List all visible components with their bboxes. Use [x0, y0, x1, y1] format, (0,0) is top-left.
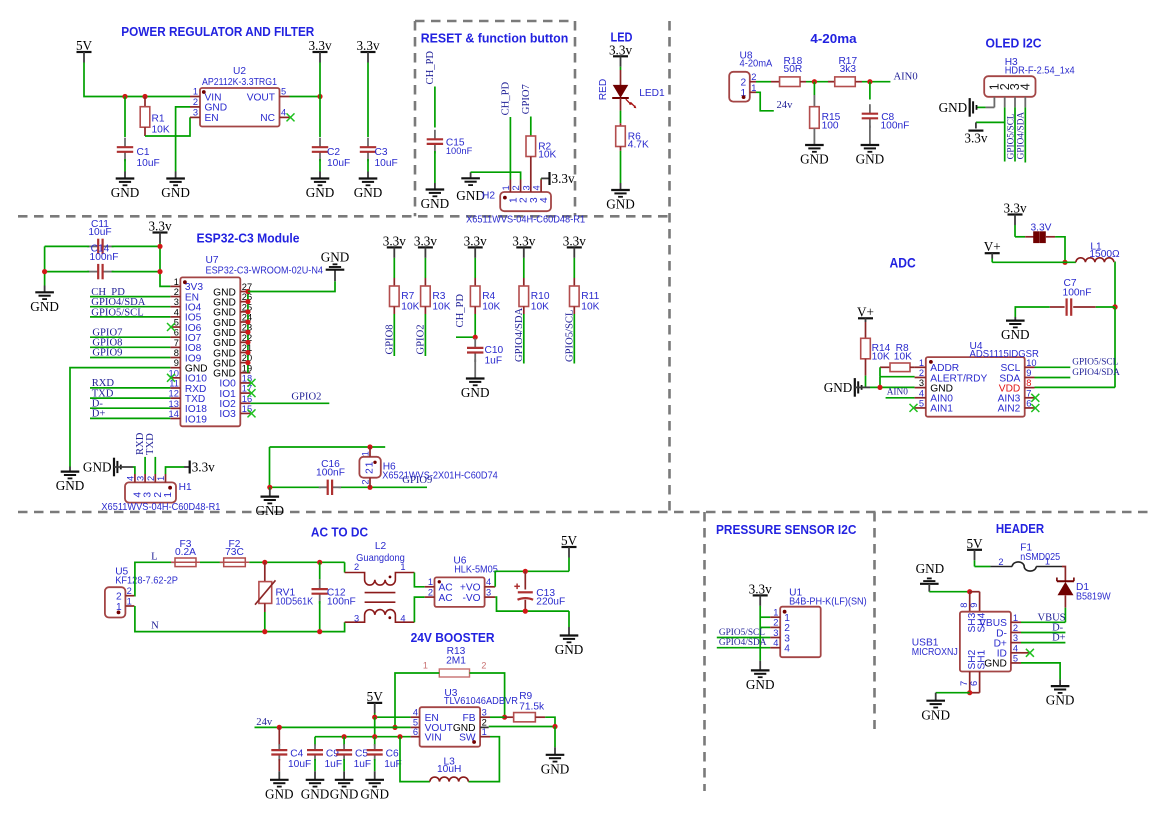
varistor RV1: [255, 562, 313, 631]
junction R13 at VOUT row 24v rail: [392, 725, 397, 730]
junction at C2: [317, 94, 322, 99]
L2 secondary phase dot: [388, 616, 391, 619]
svg-text:R11: R11: [581, 291, 599, 302]
junction on GND row: [877, 385, 882, 390]
U6 pin 1 dot: [438, 580, 441, 583]
inductor L1: [1076, 242, 1120, 263]
svg-text:2: 2: [127, 586, 132, 596]
no-connect X on U2 pin 4: [287, 113, 295, 121]
junction dots on GND bus: [245, 289, 250, 365]
svg-text:3: 3: [354, 613, 359, 623]
U2 pin 1 VIN: [190, 87, 221, 104]
H3 pin 4 stub and wire: [1024, 97, 1026, 163]
U7 pin 21 GND: [213, 343, 252, 359]
ground below C2: [306, 179, 335, 201]
svg-text:HLK-5M05: HLK-5M05: [454, 565, 498, 576]
svg-text:GPIO2: GPIO2: [415, 324, 426, 354]
USB1 pin 4 ID: [997, 643, 1021, 659]
U7 pin 14 IO19: [169, 409, 208, 425]
svg-text:V+: V+: [984, 239, 1001, 254]
svg-text:4: 4: [400, 613, 405, 623]
svg-text:4: 4: [1018, 83, 1032, 90]
U2 pin 1 dot: [202, 90, 206, 94]
L2 primary phase dot: [389, 576, 392, 579]
svg-text:5: 5: [1013, 653, 1018, 663]
svg-text:C5: C5: [355, 749, 368, 760]
net label AIN0: [894, 71, 918, 82]
wire bottom rail C16: [270, 486, 428, 488]
svg-text:2: 2: [751, 72, 756, 82]
H2 pin numbers: [501, 185, 542, 190]
svg-text:2M1: 2M1: [446, 655, 466, 666]
U4 pin 1 dot: [929, 360, 933, 364]
H1 footprint label: [101, 502, 220, 513]
svg-text:C6: C6: [386, 749, 399, 760]
power symbol 5V at AC-DC output: [561, 533, 578, 557]
H2 footprint label: [466, 215, 585, 226]
wire 3.3v down to U7 pin1: [160, 243, 170, 286]
svg-text:10K: 10K: [482, 302, 500, 313]
svg-text:V+: V+: [857, 304, 874, 319]
wire USB1 D+: [1021, 642, 1065, 644]
junction at C10: [473, 335, 478, 340]
wire TXD to H1 pin 2: [154, 457, 156, 474]
wire GND bus to top-right ground: [248, 270, 335, 292]
wire N line: [135, 606, 345, 632]
svg-text:1: 1: [193, 87, 198, 97]
wire L line: [134, 562, 175, 595]
svg-text:-VO: -VO: [462, 593, 480, 604]
svg-text:2: 2: [354, 562, 359, 572]
wire 3.3v to ferrite bead: [1015, 225, 1034, 237]
connector U5 body: [105, 566, 178, 617]
svg-text:AIN0: AIN0: [887, 387, 909, 397]
svg-text:GPIO5/SCL: GPIO5/SCL: [1006, 113, 1016, 159]
U3 pin 1 dot: [472, 740, 476, 744]
wire AIN0 to U4 pin 4: [886, 397, 915, 399]
ground below USB1 GND pin: [1046, 686, 1075, 708]
H1 pin 1 dot: [168, 486, 172, 490]
U7 pin 24 GND: [213, 312, 252, 328]
svg-text:GND: GND: [265, 786, 294, 801]
wire top rail H6: [270, 447, 386, 487]
svg-text:2: 2: [919, 368, 924, 378]
svg-text:13: 13: [169, 399, 179, 409]
svg-text:IO3: IO3: [219, 409, 236, 420]
ground below AC-DC output: [555, 636, 584, 658]
global label GPIO9 wire: [90, 348, 170, 359]
capacitor C4: [271, 727, 311, 779]
U7 pin 7 IO8: [170, 338, 201, 354]
power symbol 3.3v to H3: [964, 122, 1004, 145]
svg-text:2: 2: [146, 476, 156, 481]
svg-text:4.7K: 4.7K: [628, 139, 649, 150]
svg-text:R3: R3: [432, 291, 445, 302]
U2 pin 5 VOUT: [247, 87, 290, 104]
wire R18 to R17: [806, 81, 835, 83]
wire EN row: [375, 716, 411, 718]
no-connect X on U7 pin 10: [167, 374, 175, 382]
svg-text:IO19: IO19: [185, 414, 207, 425]
svg-text:10uF: 10uF: [88, 227, 111, 238]
global label GPIO5/SCL: [90, 307, 170, 318]
power symbol 3.3v above C2: [308, 38, 331, 62]
U7 pin 26 GND: [213, 292, 252, 308]
U4 pin 3 GND: [915, 378, 953, 394]
USB1 pin 5 GND: [984, 653, 1021, 669]
junction C4 at 24v rail: [277, 725, 282, 730]
ground below C4: [265, 780, 294, 802]
H3 pin numbers inside: [988, 83, 1033, 90]
svg-text:1500Ω: 1500Ω: [1089, 249, 1120, 260]
wire L2 pin1 to U6: [414, 573, 424, 587]
wire C7 to ground: [1015, 307, 1115, 321]
U5 pin 2: [116, 586, 134, 603]
ground below U1: [746, 670, 775, 692]
svg-text:GND: GND: [306, 185, 335, 200]
svg-text:PRESSURE SENSOR I2C: PRESSURE SENSOR I2C: [716, 523, 856, 537]
svg-text:1uF: 1uF: [325, 759, 343, 770]
wire 3.3v to LED: [620, 67, 622, 86]
wire and vertical global label GPIO2 below R3: [415, 307, 426, 357]
wire bottom rail C14: [45, 271, 160, 273]
svg-text:X6511WVS-04H-C60D48-R1: X6511WVS-04H-C60D48-R1: [466, 215, 585, 226]
ground below shield: [921, 701, 950, 723]
svg-text:GND: GND: [856, 152, 885, 167]
resistor R7: [390, 258, 420, 313]
svg-text:10: 10: [1026, 358, 1036, 368]
H2 pin stubs: [510, 180, 541, 193]
svg-text:4: 4: [539, 197, 550, 203]
wire U3 GND to junction: [489, 726, 555, 728]
svg-text:6: 6: [1026, 398, 1031, 408]
svg-text:10K: 10K: [581, 302, 599, 313]
svg-text:GND: GND: [321, 250, 350, 265]
svg-text:3k3: 3k3: [840, 64, 857, 75]
wire R8 to ALERT and GND row: [880, 367, 915, 387]
U4 pin 9 SDA: [999, 368, 1034, 384]
svg-text:3: 3: [486, 587, 491, 597]
ground below R15: [800, 145, 829, 167]
svg-text:R1: R1: [152, 114, 165, 125]
svg-text:2: 2: [998, 557, 1003, 567]
ground below C6: [360, 780, 389, 802]
transformer L2 secondary winding: [345, 610, 415, 624]
capacitor C3: [360, 138, 398, 179]
capacitor C5: [336, 737, 371, 780]
wire H1 pin1 to 3.3v: [166, 467, 185, 474]
wire VIN row: [315, 736, 411, 738]
wire and vertical global label GPIO5/SCL below R11: [564, 307, 575, 364]
resistor R17: [828, 56, 862, 86]
net label 24v: [256, 717, 273, 728]
svg-text:GPIO7: GPIO7: [521, 84, 532, 114]
junction C13 top: [523, 569, 528, 574]
svg-text:U2: U2: [233, 66, 246, 77]
svg-text:GND: GND: [921, 707, 950, 722]
ground flag top-left of USB1: [916, 561, 945, 592]
global label D- wire: [90, 399, 170, 410]
svg-text:3: 3: [174, 297, 179, 307]
svg-text:1: 1: [751, 83, 756, 93]
U7 pin 8 IO9: [170, 348, 201, 364]
USB1 shield pin numbers 8 9: [959, 603, 979, 608]
USB1 top shield stubs: [970, 592, 980, 612]
svg-text:8: 8: [174, 348, 179, 358]
svg-text:5: 5: [281, 87, 286, 97]
capacitor C11: [87, 219, 113, 254]
svg-text:GPIO9: GPIO9: [402, 475, 432, 486]
svg-text:L2: L2: [375, 541, 387, 552]
svg-text:GND: GND: [205, 103, 228, 114]
svg-text:1: 1: [919, 358, 924, 368]
transformer L2 labels: [356, 541, 405, 564]
svg-text:B5819W: B5819W: [1076, 592, 1111, 603]
section title AC TO DC: [311, 526, 368, 540]
capacitor C8: [862, 82, 910, 145]
power symbol 3.3v above LED: [609, 43, 632, 67]
wire R6 to ground: [620, 151, 622, 190]
wire USB1 D-: [1021, 632, 1065, 634]
junction C7: [1112, 304, 1117, 309]
svg-text:3: 3: [521, 185, 531, 190]
svg-text:3.3v: 3.3v: [609, 43, 632, 58]
svg-text:100: 100: [822, 121, 839, 132]
svg-text:4: 4: [773, 638, 778, 648]
svg-text:EN: EN: [205, 113, 219, 124]
power symbol 5V header: [966, 536, 983, 560]
no-connect X on U4 pins 7 and 6: [1031, 394, 1039, 412]
svg-text:GND: GND: [606, 197, 635, 212]
label RED vertical: [598, 79, 609, 101]
svg-text:3.3v: 3.3v: [749, 582, 772, 597]
svg-text:3.3v: 3.3v: [1003, 201, 1026, 216]
svg-text:C2: C2: [327, 147, 340, 158]
op-amp U2 AP2112K regulator body: [200, 66, 280, 127]
U1 pin 1 dot: [783, 610, 787, 614]
junction H6 pin1: [367, 444, 372, 449]
ground below C9: [301, 780, 330, 802]
svg-text:2: 2: [428, 587, 433, 597]
power symbol 3.3v above R3: [414, 234, 437, 258]
svg-text:3: 3: [136, 476, 146, 481]
svg-text:ESP32-C3 Module: ESP32-C3 Module: [197, 232, 300, 246]
svg-text:6: 6: [969, 681, 979, 686]
H6 pin names inside: [364, 461, 375, 474]
svg-text:GND: GND: [916, 561, 945, 576]
F1 pin 1 number: [1045, 557, 1050, 567]
svg-text:CH_PD: CH_PD: [425, 51, 436, 85]
svg-text:4: 4: [486, 577, 491, 587]
svg-text:GND: GND: [354, 185, 383, 200]
svg-text:GND: GND: [360, 786, 389, 801]
svg-text:1: 1: [428, 577, 433, 587]
IC U3 TLV61046 body: [420, 688, 518, 747]
H3 pin 2 stub and wire: [1004, 97, 1006, 162]
svg-text:3.3v: 3.3v: [414, 234, 437, 249]
USB1 shield names SH3 SH4: [967, 612, 988, 632]
power symbol 5V: [76, 38, 93, 62]
svg-text:2: 2: [361, 479, 371, 484]
junction GND row: [552, 724, 557, 729]
wire SW to L3: [468, 737, 499, 782]
wire top rail C11: [45, 245, 160, 247]
net label L: [151, 552, 157, 563]
svg-text:R10: R10: [531, 291, 550, 302]
ground below C1: [111, 179, 140, 201]
svg-text:10uH: 10uH: [437, 764, 461, 775]
ground below C15: [421, 190, 450, 212]
USB1 shield pin numbers 7 6: [959, 681, 979, 686]
svg-text:5V: 5V: [76, 38, 93, 53]
svg-text:3.3v: 3.3v: [464, 234, 487, 249]
capacitor C9: [307, 737, 342, 780]
power symbol 3.3v above R7: [383, 234, 406, 258]
svg-text:1: 1: [423, 660, 428, 670]
U7 pin 1 dot: [183, 280, 187, 284]
U1 pin 4: [770, 638, 790, 655]
U7 pin 19 GND: [213, 363, 252, 379]
junction left rail: [42, 269, 47, 274]
U7 pin 20 GND: [213, 353, 252, 369]
power symbol 3.3v above R4: [464, 234, 487, 258]
capacitor C6: [367, 737, 402, 780]
svg-text:GND: GND: [456, 188, 485, 203]
capacitor C1: [117, 97, 160, 179]
wire LED to R6: [620, 98, 622, 126]
resistor R6: [616, 126, 649, 151]
capacitor C14: [87, 244, 118, 280]
svg-text:1: 1: [127, 596, 132, 606]
svg-text:0.2A: 0.2A: [175, 547, 196, 558]
svg-text:2: 2: [481, 660, 486, 670]
resistor R4: [470, 258, 500, 313]
svg-text:3.3v: 3.3v: [552, 171, 575, 186]
svg-text:ESP32-C3-WROOM-02U-N4: ESP32-C3-WROOM-02U-N4: [206, 266, 324, 277]
H6 pin 1 dot: [373, 461, 376, 464]
H1 pin numbers: [125, 476, 166, 481]
svg-text:100nF: 100nF: [316, 468, 345, 479]
connector H1 body: [125, 482, 192, 503]
wire C7 junction down to VDD: [1114, 307, 1116, 387]
section title ESP32-C3 Module: [197, 232, 300, 246]
IC U6 HLK-5M05 body: [435, 556, 499, 607]
svg-text:POWER REGULATOR AND FILTER: POWER REGULATOR AND FILTER: [121, 25, 314, 39]
svg-text:H2: H2: [482, 191, 495, 202]
svg-text:3: 3: [193, 107, 198, 117]
svg-text:1: 1: [773, 608, 778, 618]
net label GPIO9 at C16 rail: [402, 475, 432, 486]
H1 pin names inside: [132, 492, 174, 498]
svg-text:4-20mA: 4-20mA: [740, 59, 773, 70]
svg-text:1: 1: [174, 277, 179, 287]
USB1 bottom shield stubs: [970, 672, 980, 693]
vertical global label TXD above H1: [145, 433, 156, 455]
svg-text:GND: GND: [421, 196, 450, 211]
polarized capacitor C13: [514, 571, 565, 611]
svg-text:6: 6: [174, 328, 179, 338]
ground flag near H2: [456, 172, 485, 203]
wire V+ to L1: [992, 261, 1076, 263]
U7 pin 16 IO2: [219, 394, 252, 410]
svg-text:L: L: [151, 552, 157, 563]
ground right of U3: [541, 755, 570, 777]
fuse F2: [220, 539, 250, 567]
svg-text:14: 14: [169, 409, 179, 419]
svg-text:9: 9: [1026, 368, 1031, 378]
U7 pin 17 IO1: [219, 384, 252, 400]
global labels and wires left of U7: CH_PD: [90, 287, 170, 298]
junction shield top: [967, 589, 972, 594]
wire 3.3v down to C2: [319, 63, 321, 138]
junction bottom rail right: [157, 269, 162, 274]
net label GPIO2 right of U7: [291, 392, 321, 403]
power symbol 3.3v above ferrite bead: [1003, 201, 1026, 225]
IC U7 ESP32-C3 body: [180, 255, 323, 426]
svg-text:KF128-7.62-2P: KF128-7.62-2P: [115, 576, 178, 587]
junction at C1: [122, 94, 127, 99]
wire F1 to D1: [1062, 567, 1065, 581]
svg-text:10K: 10K: [432, 302, 450, 313]
ground below C16 rail: [256, 487, 285, 518]
section title RESET and function button: [421, 32, 569, 46]
svg-text:10K: 10K: [152, 125, 170, 136]
ground below U2 GND: [161, 179, 190, 201]
svg-text:GND: GND: [746, 677, 775, 692]
svg-text:GND: GND: [939, 100, 968, 115]
global label GPIO4/SDA vertical: [1017, 112, 1027, 160]
svg-text:OLED I2C: OLED I2C: [986, 37, 1042, 51]
net label D-: [1052, 622, 1064, 633]
svg-text:GND: GND: [111, 185, 140, 200]
wire R13 right leg: [470, 673, 505, 717]
power flag V+ above R14: [857, 304, 874, 322]
svg-text:GND: GND: [330, 786, 359, 801]
svg-text:220uF: 220uF: [536, 597, 565, 608]
net label N: [151, 621, 159, 632]
ground top-right of U7 inverted: [321, 250, 350, 270]
no-connect X on USB1 ID: [1021, 649, 1034, 657]
svg-text:3.3v: 3.3v: [192, 460, 215, 475]
svg-text:4: 4: [1013, 643, 1018, 653]
U1 pin 3: [770, 628, 790, 645]
junction C5 at VIN row: [342, 734, 347, 739]
svg-text:GND: GND: [541, 761, 570, 776]
U8 pin 1: [741, 83, 757, 99]
U6 pin 3 -VO: [462, 587, 495, 604]
U6 pin 4 +VO: [460, 577, 495, 594]
wire GPIO7 to R2: [530, 117, 532, 137]
power symbol 3.3v above U1: [749, 582, 772, 606]
U7 pin 12 TXD: [169, 389, 206, 405]
USB1 pin 2 D-: [996, 623, 1021, 639]
wire R13 left leg: [395, 673, 439, 727]
svg-text:1: 1: [1013, 613, 1018, 623]
U7 pin 15 IO3: [219, 404, 252, 420]
ground below C7: [1001, 321, 1030, 343]
U3 pin 1 SW: [459, 727, 490, 744]
svg-text:X6511WVS-04H-C60D48-R1: X6511WVS-04H-C60D48-R1: [101, 502, 220, 513]
svg-text:nSMD025: nSMD025: [1020, 552, 1060, 563]
svg-text:U7: U7: [206, 255, 219, 266]
diode D1: [1057, 578, 1111, 608]
svg-text:GND: GND: [1046, 693, 1075, 708]
wire L2 pin4 to U6: [414, 597, 424, 622]
junction at C12 top: [317, 560, 322, 565]
svg-text:10K: 10K: [401, 302, 419, 313]
connector H2 body: [482, 191, 551, 212]
svg-text:4: 4: [125, 476, 135, 481]
